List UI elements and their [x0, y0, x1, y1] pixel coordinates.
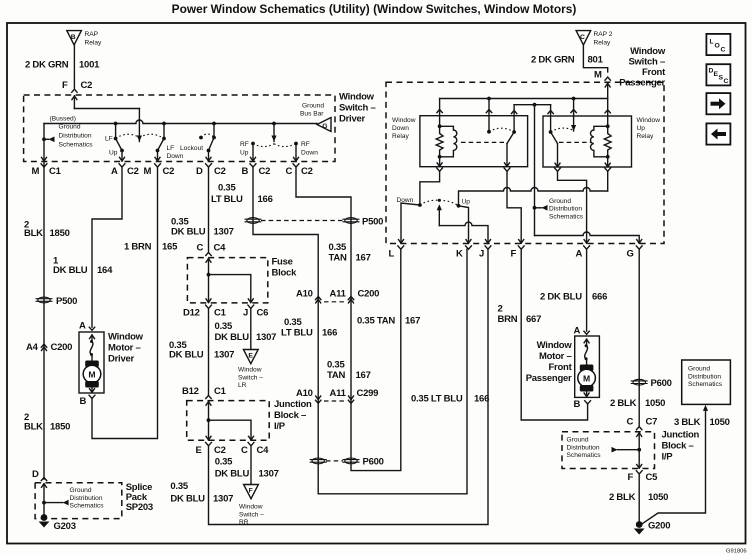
- svg-text:LR: LR: [238, 382, 247, 389]
- svg-text:Up: Up: [109, 150, 118, 157]
- svg-text:Schematics: Schematics: [70, 503, 105, 510]
- svg-text:0.35: 0.35: [218, 183, 236, 194]
- svg-text:G91806: G91806: [726, 549, 747, 555]
- svg-text:Switch –: Switch –: [238, 374, 263, 381]
- svg-text:2 BLK: 2 BLK: [610, 398, 637, 409]
- svg-text:C2: C2: [81, 80, 93, 91]
- svg-text:DK BLU: DK BLU: [215, 332, 250, 343]
- svg-text:C: C: [197, 243, 204, 254]
- svg-text:Up: Up: [637, 125, 646, 132]
- svg-text:C: C: [721, 46, 726, 53]
- svg-text:C2: C2: [301, 166, 313, 177]
- svg-text:0.35: 0.35: [329, 242, 347, 253]
- svg-text:F: F: [249, 487, 253, 494]
- svg-text:1307: 1307: [214, 350, 234, 361]
- svg-text:A10: A10: [296, 289, 313, 300]
- svg-text:E: E: [196, 445, 202, 456]
- svg-text:C2: C2: [163, 166, 175, 177]
- svg-text:Bus Bar: Bus Bar: [300, 111, 324, 118]
- svg-text:C2: C2: [214, 166, 226, 177]
- svg-text:C2: C2: [214, 445, 226, 456]
- svg-text:C: C: [286, 166, 293, 177]
- svg-text:Ground: Ground: [688, 366, 710, 373]
- svg-text:Window: Window: [630, 46, 666, 57]
- svg-text:P600: P600: [651, 378, 672, 389]
- svg-text:Schematics: Schematics: [567, 452, 602, 459]
- svg-text:B: B: [71, 34, 76, 41]
- svg-text:Power Window Schematics (Utili: Power Window Schematics (Utility) (Windo…: [172, 2, 577, 16]
- svg-text:Ground: Ground: [302, 103, 324, 110]
- svg-text:DK BLU: DK BLU: [53, 265, 88, 276]
- svg-text:Front: Front: [548, 362, 572, 373]
- svg-text:C2: C2: [259, 166, 271, 177]
- svg-text:1001: 1001: [79, 60, 100, 71]
- svg-text:B: B: [574, 399, 581, 410]
- svg-text:J: J: [479, 248, 484, 259]
- svg-text:D: D: [196, 166, 203, 177]
- svg-text:1307: 1307: [256, 332, 276, 343]
- svg-text:Ground: Ground: [567, 437, 589, 444]
- svg-text:Schematics: Schematics: [549, 213, 584, 220]
- svg-text:P500: P500: [56, 296, 77, 307]
- svg-text:Relay: Relay: [392, 133, 410, 140]
- svg-text:DK BLU: DK BLU: [171, 227, 206, 238]
- svg-text:1050: 1050: [710, 417, 730, 428]
- svg-text:(Bussed): (Bussed): [50, 115, 76, 122]
- svg-text:C7: C7: [646, 417, 658, 428]
- svg-text:G203: G203: [54, 521, 76, 532]
- svg-text:Window: Window: [108, 332, 144, 343]
- svg-text:Up: Up: [462, 199, 471, 206]
- svg-text:G: G: [627, 248, 634, 259]
- svg-text:D12: D12: [183, 308, 200, 319]
- svg-text:I/P: I/P: [274, 421, 286, 432]
- svg-text:666: 666: [592, 292, 607, 303]
- svg-text:M: M: [32, 166, 40, 177]
- svg-text:SP203: SP203: [126, 502, 153, 513]
- svg-text:A10: A10: [296, 388, 313, 399]
- svg-text:M: M: [594, 69, 602, 80]
- svg-text:Block –: Block –: [662, 441, 694, 452]
- svg-text:Block: Block: [272, 268, 298, 279]
- svg-text:Distribution: Distribution: [567, 444, 600, 451]
- svg-text:166: 166: [474, 394, 489, 405]
- svg-text:1050: 1050: [645, 398, 665, 409]
- svg-text:BLK: BLK: [24, 228, 43, 239]
- svg-text:2 DK GRN: 2 DK GRN: [25, 60, 69, 71]
- svg-text:667: 667: [526, 314, 541, 325]
- svg-text:Down: Down: [301, 150, 318, 157]
- svg-text:167: 167: [356, 370, 371, 381]
- svg-text:RF: RF: [240, 141, 249, 148]
- svg-text:Window: Window: [392, 117, 416, 124]
- svg-text:C200: C200: [358, 289, 380, 300]
- svg-text:C1: C1: [214, 308, 227, 319]
- svg-text:165: 165: [162, 242, 178, 253]
- svg-text:167: 167: [405, 316, 420, 327]
- svg-text:B12: B12: [182, 386, 199, 397]
- svg-text:Switch –: Switch –: [628, 57, 665, 68]
- svg-text:P600: P600: [363, 457, 384, 468]
- svg-text:E: E: [248, 352, 253, 359]
- svg-text:C4: C4: [257, 445, 270, 456]
- svg-text:0.35: 0.35: [170, 481, 188, 492]
- svg-text:1307: 1307: [259, 469, 279, 480]
- svg-text:0.35 TAN: 0.35 TAN: [357, 316, 395, 327]
- svg-text:C6: C6: [257, 308, 269, 319]
- svg-text:C1: C1: [49, 166, 62, 177]
- svg-text:A11: A11: [330, 388, 347, 399]
- svg-text:I/P: I/P: [662, 452, 674, 463]
- svg-text:Window: Window: [238, 367, 262, 374]
- svg-text:0.35 LT BLU: 0.35 LT BLU: [411, 394, 463, 405]
- svg-text:C: C: [724, 78, 729, 85]
- svg-text:C: C: [241, 445, 248, 456]
- svg-text:Fuse: Fuse: [272, 257, 293, 268]
- svg-text:1307: 1307: [214, 227, 234, 238]
- svg-text:A: A: [576, 248, 583, 259]
- svg-text:Down: Down: [392, 125, 409, 132]
- svg-text:BLK: BLK: [24, 422, 43, 433]
- svg-text:0.35: 0.35: [327, 360, 345, 371]
- svg-text:C1: C1: [214, 386, 227, 397]
- svg-text:1850: 1850: [50, 228, 70, 239]
- svg-text:DK BLU: DK BLU: [169, 350, 204, 361]
- svg-text:Junction: Junction: [662, 430, 700, 441]
- svg-text:DK BLU: DK BLU: [170, 494, 205, 505]
- svg-text:G: G: [322, 123, 327, 130]
- svg-text:164: 164: [97, 265, 113, 276]
- svg-text:L: L: [710, 38, 714, 45]
- svg-text:LF: LF: [105, 136, 113, 143]
- svg-text:B: B: [80, 396, 87, 407]
- svg-text:A11: A11: [330, 289, 347, 300]
- svg-text:Window: Window: [637, 117, 661, 124]
- svg-text:Motor –: Motor –: [539, 351, 572, 362]
- svg-text:LF: LF: [167, 145, 175, 152]
- svg-text:RAP 2: RAP 2: [594, 31, 613, 38]
- svg-text:Distribution: Distribution: [688, 373, 721, 380]
- svg-text:Driver: Driver: [339, 114, 366, 125]
- svg-text:2 BLK: 2 BLK: [609, 492, 636, 503]
- svg-text:B: B: [242, 166, 249, 177]
- svg-text:Junction: Junction: [274, 399, 312, 410]
- svg-text:Switch –: Switch –: [339, 103, 376, 114]
- svg-text:DK BLU: DK BLU: [215, 469, 250, 480]
- svg-text:TAN: TAN: [329, 253, 347, 264]
- svg-text:RAP: RAP: [85, 31, 99, 38]
- svg-text:Distribution: Distribution: [59, 133, 92, 140]
- svg-text:Window: Window: [537, 340, 573, 351]
- svg-text:0.35: 0.35: [284, 317, 302, 328]
- svg-text:1307: 1307: [213, 494, 233, 505]
- svg-text:1 BRN: 1 BRN: [124, 242, 152, 253]
- svg-text:Passenger: Passenger: [526, 373, 572, 384]
- svg-text:Driver: Driver: [108, 354, 135, 365]
- svg-text:2 DK BLU: 2 DK BLU: [540, 292, 582, 303]
- svg-text:TAN: TAN: [327, 370, 345, 381]
- svg-text:A4: A4: [26, 342, 39, 353]
- svg-text:C200: C200: [51, 342, 73, 353]
- svg-text:C2: C2: [127, 166, 139, 177]
- svg-text:Down: Down: [167, 153, 184, 160]
- svg-text:K: K: [456, 248, 463, 259]
- svg-text:C: C: [627, 417, 634, 428]
- svg-text:C5: C5: [646, 472, 659, 483]
- svg-text:166: 166: [258, 194, 273, 205]
- svg-text:1850: 1850: [50, 422, 70, 433]
- svg-text:Window: Window: [339, 92, 375, 103]
- svg-text:Relay: Relay: [594, 40, 612, 47]
- svg-text:M: M: [88, 370, 95, 380]
- svg-text:Switch –: Switch –: [239, 511, 264, 518]
- svg-text:C4: C4: [214, 243, 227, 254]
- svg-text:Schematics: Schematics: [688, 381, 723, 388]
- svg-text:167: 167: [356, 253, 371, 264]
- svg-text:Distribution: Distribution: [549, 206, 582, 213]
- svg-text:A: A: [574, 325, 581, 336]
- svg-text:801: 801: [588, 55, 604, 66]
- svg-text:0.35: 0.35: [215, 457, 233, 468]
- svg-text:Ground: Ground: [59, 124, 81, 131]
- svg-text:2 DK GRN: 2 DK GRN: [531, 55, 575, 66]
- svg-text:Ground: Ground: [549, 198, 571, 205]
- svg-text:F: F: [628, 472, 634, 483]
- svg-text:Relay: Relay: [637, 133, 655, 140]
- svg-text:P500: P500: [362, 216, 383, 227]
- svg-text:Block –: Block –: [274, 410, 306, 421]
- svg-text:F: F: [511, 248, 517, 259]
- svg-text:BRN: BRN: [498, 314, 518, 325]
- svg-text:Relay: Relay: [85, 40, 103, 47]
- svg-text:Window: Window: [239, 504, 263, 511]
- svg-text:O: O: [715, 42, 720, 49]
- svg-text:Schematics: Schematics: [59, 142, 94, 149]
- svg-text:M: M: [583, 374, 590, 384]
- svg-text:A: A: [79, 320, 86, 331]
- svg-text:M: M: [144, 166, 152, 177]
- svg-text:A: A: [111, 166, 118, 177]
- svg-text:2: 2: [498, 304, 503, 315]
- svg-text:Lockout: Lockout: [180, 145, 203, 152]
- svg-text:C: C: [580, 34, 585, 41]
- svg-text:D: D: [32, 469, 39, 480]
- svg-text:Distribution: Distribution: [70, 495, 103, 502]
- svg-text:LT BLU: LT BLU: [211, 194, 243, 205]
- svg-text:LT BLU: LT BLU: [281, 328, 313, 339]
- svg-text:F: F: [62, 80, 68, 91]
- svg-text:J: J: [243, 308, 248, 319]
- svg-text:1050: 1050: [648, 492, 668, 503]
- svg-text:166: 166: [322, 328, 337, 339]
- svg-text:RF: RF: [301, 141, 310, 148]
- svg-text:Up: Up: [240, 150, 249, 157]
- svg-text:Front: Front: [642, 67, 666, 78]
- svg-text:L: L: [389, 248, 395, 259]
- svg-text:C299: C299: [357, 388, 379, 399]
- svg-text:Passenger: Passenger: [619, 78, 665, 89]
- svg-text:0.35: 0.35: [215, 321, 233, 332]
- svg-text:Motor –: Motor –: [108, 343, 141, 354]
- svg-text:G200: G200: [648, 521, 670, 532]
- svg-text:Ground: Ground: [70, 487, 92, 494]
- svg-text:3 BLK: 3 BLK: [674, 417, 701, 428]
